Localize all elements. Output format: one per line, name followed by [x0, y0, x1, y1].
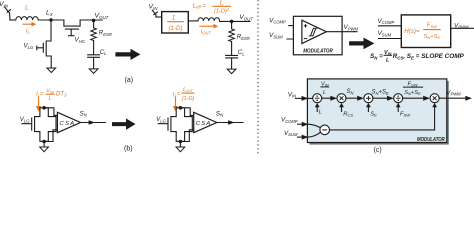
svg-text:IOUT: IOUT: [183, 87, 194, 93]
svg-text:(c): (c): [374, 147, 382, 154]
svg-text:DTS: DTS: [56, 92, 67, 98]
wire output: [451, 27, 474, 29]
inductor Leff: [198, 18, 220, 21]
svg-text:L: L: [323, 90, 326, 96]
adder circle 3: [364, 94, 373, 103]
pin RCS input arrow: [341, 108, 343, 112]
resistor RESR: [229, 29, 235, 42]
svg-text:H(s)=: H(s)=: [404, 28, 420, 35]
current arrow iL: [23, 23, 33, 25]
svg-text:SN+SE: SN+SE: [404, 90, 421, 96]
arrow c: [349, 38, 374, 50]
wire: [93, 20, 95, 27]
wire: [322, 97, 331, 99]
transistor LS gate: [37, 43, 44, 52]
svg-text:SN+SE: SN+SE: [423, 34, 440, 40]
wire output: [217, 122, 243, 124]
multiplier circle 5: [430, 94, 439, 103]
modulator block diagram box shadow: [309, 81, 448, 145]
svg-text:(1-D): (1-D): [168, 25, 182, 32]
wire VCOMP: [298, 123, 303, 125]
wire: [373, 97, 387, 99]
wire: [403, 97, 424, 99]
op-amp CSA: [57, 112, 80, 132]
transistor HS switch channel: [64, 20, 80, 26]
transistor power FET cross outline: [35, 108, 56, 142]
wire sense tap source: [180, 130, 193, 142]
ground: [47, 68, 56, 73]
multiplier circle 2: [337, 94, 346, 103]
transistor gate: [22, 118, 32, 130]
svg-text:(1-D): (1-D): [182, 96, 195, 102]
wire: [287, 38, 302, 40]
ground: [176, 147, 185, 152]
arrow b: [112, 118, 136, 129]
divider circle 1: [313, 94, 322, 103]
node VOUT junction: [230, 20, 234, 24]
svg-text:MODULATOR: MODULATOR: [303, 49, 333, 55]
wire: [308, 97, 313, 99]
svg-text:iL=: iL=: [173, 92, 181, 98]
wire: [220, 20, 250, 22]
wire output: [81, 122, 106, 124]
wire: [379, 38, 402, 40]
wire: [10, 19, 16, 21]
svg-text:L: L: [220, 1, 223, 7]
svg-text:L: L: [48, 96, 51, 102]
current arrow iOUT: [199, 25, 214, 27]
ground: [227, 69, 236, 74]
wire: [93, 41, 95, 55]
node source junction: [42, 140, 46, 144]
svg-text:1: 1: [172, 15, 176, 22]
pin FSW input arrow: [397, 108, 399, 112]
wire: [80, 19, 102, 21]
svg-text:CSA: CSA: [196, 121, 211, 127]
node VOUT junction: [92, 19, 96, 23]
resistor RESR: [91, 28, 97, 41]
wire: [156, 16, 162, 18]
terminal VIN lead: [152, 10, 157, 17]
svg-text:MODULATOR: MODULATOR: [417, 137, 445, 143]
node drain junction: [179, 106, 183, 110]
capacitor CL: [226, 55, 238, 58]
SECTION-A-RIGHT: [149, 1, 254, 74]
wire sense tap source: [44, 130, 57, 142]
svg-text:L: L: [319, 109, 322, 115]
svg-text:SN+SE: SN+SE: [372, 90, 390, 96]
svg-text:Leff =: Leff =: [193, 3, 207, 9]
pin L input arrow: [316, 108, 318, 112]
terminal VIN lead: [5, 7, 11, 20]
svg-text:iL=: iL=: [36, 92, 44, 98]
op-amp comparator U1: [302, 20, 327, 43]
pin minus: [304, 38, 307, 40]
wire VSUM: [298, 136, 303, 138]
SECTION-C-TOP: [269, 15, 474, 64]
wire: [289, 25, 302, 27]
svg-text:FSW: FSW: [400, 112, 411, 118]
svg-text:RCS, SE = SLOPE COMP: RCS, SE = SLOPE COMP: [393, 53, 465, 60]
modulator block diagram box: [307, 79, 446, 143]
svg-text:L: L: [386, 58, 389, 64]
wire: [38, 19, 64, 21]
wire: [231, 21, 233, 28]
svg-text:CSA: CSA: [60, 121, 75, 127]
subtractor circle: [320, 125, 330, 135]
arrow a: [115, 49, 140, 60]
SECTION-B: [20, 87, 243, 153]
pin plus: [304, 24, 307, 27]
wire sense tap drain: [180, 108, 193, 116]
capacitor CL: [88, 55, 100, 58]
svg-text:RCS: RCS: [343, 112, 353, 118]
op-amp CSA: [194, 112, 217, 132]
wire: [43, 142, 45, 148]
wire: [379, 25, 402, 27]
wire: [93, 57, 95, 69]
transistor HS gate: [65, 29, 78, 36]
wire: [346, 97, 357, 99]
divider circle 4: [394, 94, 403, 103]
wire sense tap drain: [44, 108, 57, 116]
SECTION-A-LEFT: [0, 1, 140, 84]
current arrow into FET: [38, 97, 40, 107]
node source junction: [179, 140, 183, 144]
current arrow into FET: [175, 97, 177, 107]
pin SE input arrow: [367, 108, 369, 112]
block H(s): [401, 15, 450, 48]
SECTION-C-BOTTOM: [281, 79, 472, 154]
inductor L: [16, 17, 38, 20]
separator dashed line: [257, 0, 259, 156]
transistor power FET cross outline: [171, 108, 192, 142]
svg-text:(a): (a): [125, 77, 134, 84]
svg-text:FSW: FSW: [427, 23, 438, 29]
wire output: [326, 31, 357, 33]
wire: [231, 58, 233, 69]
svg-text:SN: SN: [347, 89, 354, 95]
transistor gate: [158, 118, 168, 130]
gain block 1/(1-D): [162, 12, 189, 33]
svg-text:SN =: SN =: [370, 53, 383, 60]
modulator box: [293, 16, 342, 55]
node LX junction: [49, 18, 52, 21]
wire LX to LS switch: [46, 20, 51, 68]
ground: [40, 147, 49, 152]
svg-text:SE: SE: [370, 112, 377, 118]
wire input: [296, 97, 303, 99]
wire output: [439, 97, 465, 99]
svg-text:(b): (b): [124, 146, 133, 153]
wire: [231, 42, 233, 56]
ground: [89, 69, 98, 74]
hysteresis symbol: [309, 28, 315, 36]
node drain junction: [42, 106, 46, 110]
svg-text:L: L: [25, 5, 29, 12]
wire feedback: [330, 108, 435, 130]
wire: [179, 142, 181, 148]
wire: [189, 20, 199, 22]
